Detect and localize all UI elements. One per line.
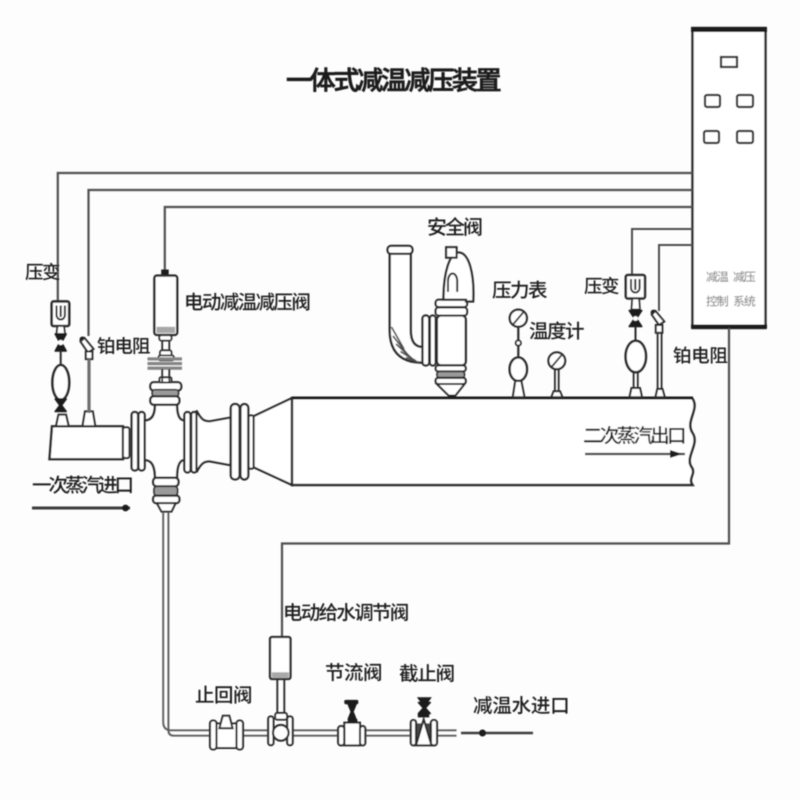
pedestal on inlet pipe for RTD bbox=[83, 411, 96, 426]
pressure gauge dial bbox=[510, 310, 527, 327]
outlet pipe body bbox=[292, 398, 695, 485]
venturi throat bbox=[197, 411, 231, 473]
throttle valve stem hourglass bbox=[348, 704, 356, 719]
cross bottom taper cap bbox=[157, 503, 176, 512]
cross top flange bar 3 bbox=[150, 396, 179, 404]
feedwater valve flange right bbox=[287, 716, 293, 745]
stop valve stem hourglass bbox=[418, 703, 430, 714]
left PT siphon loop bbox=[52, 365, 69, 400]
left PT lower hourglass bbox=[55, 399, 66, 412]
safety valve body bbox=[437, 316, 466, 366]
feedwater valve neck bbox=[275, 713, 287, 720]
safety valve spring hood bbox=[444, 253, 474, 302]
label 压变 right bbox=[584, 277, 618, 294]
feedwater valve actuator box bbox=[270, 637, 291, 679]
thermometer pedestal bbox=[551, 391, 562, 397]
left PT isolation valve (hourglass) bbox=[55, 334, 66, 351]
pedestal on inlet pipe for PT bbox=[56, 415, 69, 427]
stop valve bonnet bbox=[418, 714, 429, 718]
left PT stem bbox=[60, 351, 62, 367]
left pressure transmitter head bbox=[52, 301, 69, 326]
right PT siphon loop bbox=[626, 341, 646, 373]
right PT neck bbox=[632, 299, 640, 310]
safety valve lifting lever bbox=[446, 247, 457, 258]
right PT stem upper bbox=[635, 327, 637, 342]
safety valve bonnet flange 2 bbox=[436, 308, 468, 316]
left PT neck bbox=[57, 326, 66, 334]
cross bottom flange bar 1 bbox=[153, 478, 178, 487]
check valve flange right bbox=[237, 721, 244, 750]
control cabinet box bbox=[691, 28, 767, 328]
safety valve base stem bbox=[449, 396, 456, 400]
cabinet indicator window top bbox=[721, 57, 737, 67]
PRDS yoke band 3 grey bbox=[148, 367, 183, 370]
inlet pipe body bbox=[50, 426, 124, 459]
thermometer dial bbox=[548, 352, 565, 369]
safety valve base taper bbox=[437, 384, 465, 396]
PRDS valve neck bar bbox=[159, 335, 171, 340]
right PT isolation hourglass bbox=[629, 311, 642, 327]
feedwater valve flange left bbox=[268, 716, 273, 745]
water line double pipe bbox=[163, 512, 456, 736]
cross bottom flange bar 3 bbox=[153, 496, 179, 504]
pressure gauge stem fitting bbox=[516, 340, 521, 345]
label 安全阀 bbox=[428, 217, 481, 236]
venturi step bar bbox=[249, 415, 254, 468]
left RTD rod bbox=[87, 359, 90, 413]
label 温度计 bbox=[530, 321, 584, 339]
PRDS yoke band 2 grey bbox=[148, 362, 183, 365]
cabinet label line2 控制系统 bbox=[706, 295, 755, 306]
throttle valve bonnet bbox=[348, 719, 358, 723]
throttle valve handle bbox=[344, 700, 358, 704]
cross top flange bar 1 bbox=[150, 382, 181, 390]
cross bottom flange bar 2 grey bbox=[154, 486, 178, 495]
water inlet arrow line bbox=[461, 730, 533, 737]
feedwater valve ball body bbox=[273, 725, 289, 741]
venturi right flange bar 1 bbox=[184, 412, 190, 473]
cross top flange bar 2 grey bbox=[152, 390, 178, 397]
label 铂电阻 right bbox=[673, 346, 727, 363]
cabinet button row 1 left bbox=[705, 95, 720, 107]
label 截止阀 bbox=[400, 664, 454, 682]
PRDS stem collar 2 bbox=[159, 355, 174, 360]
wire right RTD to cabinet bbox=[659, 245, 693, 311]
wire left PT to cabinet bbox=[58, 173, 693, 301]
elbow hatch lines bbox=[392, 327, 420, 363]
check valve cap bbox=[219, 716, 232, 729]
diffuser cone bbox=[254, 398, 292, 485]
right pressure transmitter head bbox=[626, 275, 645, 299]
stop valve flange left bbox=[411, 720, 416, 745]
stop valve dark body fill bbox=[417, 724, 431, 746]
safety valve inlet flange bar 1 bbox=[423, 316, 430, 366]
label 压变 left bbox=[25, 263, 59, 280]
venturi right flange bar 2 bbox=[191, 412, 197, 473]
outlet flow arrow bbox=[585, 450, 685, 458]
right RTD flag bbox=[651, 310, 665, 333]
throttle valve flange right bbox=[360, 726, 365, 745]
elbow top cap bbox=[388, 246, 413, 254]
wire cabinet to feedwater valve actuator bbox=[282, 328, 729, 637]
inlet flange bar 2 bbox=[139, 412, 145, 471]
safety valve inlet flange bar 2 bbox=[430, 316, 436, 366]
pressure gauge stem bbox=[517, 327, 519, 358]
cabinet button row 1 right bbox=[737, 95, 753, 107]
safety valve exhaust elbow bbox=[390, 252, 423, 363]
right PT lower stem bbox=[634, 372, 638, 388]
safety valve outlet flange bar 2 grey bbox=[437, 371, 465, 377]
stop valve flange right bbox=[431, 720, 437, 745]
left RTD flag bbox=[80, 337, 94, 360]
PRDS lower stem collar bbox=[160, 377, 172, 382]
PRDS yoke band 1 grey bbox=[148, 357, 183, 360]
pressure gauge pedestal bbox=[513, 381, 525, 397]
wire left RTD to cabinet bbox=[89, 190, 693, 336]
right RTD pedestal bbox=[656, 389, 665, 397]
check valve flange left bbox=[210, 721, 217, 750]
venturi flange tall bar 2 bbox=[241, 404, 249, 480]
label 电动给水调节阀 bbox=[285, 603, 407, 621]
label 减温水进口 bbox=[474, 696, 568, 714]
PRDS lower stem bbox=[162, 369, 169, 382]
right PT pedestal bbox=[630, 388, 643, 397]
cabinet button row 2 left bbox=[704, 131, 719, 143]
cabinet label line1 减温减压 bbox=[706, 271, 755, 282]
PRDS electric actuator box bbox=[154, 276, 177, 335]
cross valve body bbox=[145, 405, 185, 478]
cabinet button row 2 right bbox=[737, 131, 753, 143]
label 电动减温减压阀 bbox=[186, 293, 309, 311]
wire right PT to cabinet bbox=[632, 229, 693, 276]
safety valve outlet flange bar 1 bbox=[436, 365, 466, 371]
PRDS stem collar bbox=[160, 350, 172, 356]
venturi flange tall bar 1 bbox=[231, 404, 240, 480]
label 二次蒸汽出口 bbox=[584, 426, 684, 444]
title 一体式减温减压装置 bbox=[287, 68, 500, 92]
label 压力表 bbox=[493, 281, 547, 299]
label 一次蒸汽进口 bbox=[33, 476, 132, 494]
right RTD rod bbox=[658, 333, 662, 389]
wire PRDS valve actuator to cabinet bbox=[165, 207, 693, 272]
check valve body bbox=[217, 724, 237, 749]
inlet flange bar 1 bbox=[132, 412, 138, 471]
inlet flow arrow line bbox=[32, 505, 130, 512]
stop valve wedge bbox=[416, 720, 432, 746]
feedwater valve stem bbox=[277, 679, 284, 716]
outlet pipe top edge thick bbox=[292, 397, 693, 400]
label 节流阀 bbox=[326, 663, 381, 681]
inlet pipe end band bbox=[123, 427, 129, 458]
throttle valve body bbox=[344, 723, 360, 746]
label 铂电阻 left bbox=[97, 337, 149, 354]
label 止回阀 bbox=[196, 686, 251, 704]
safety valve bonnet flange 1 bbox=[436, 300, 468, 307]
pressure gauge siphon loop bbox=[510, 357, 527, 381]
safety valve inner arch bbox=[448, 274, 457, 292]
PRDS valve stem bbox=[162, 341, 169, 351]
thermometer stem bbox=[555, 369, 559, 392]
safety valve outlet flange bar 3 bbox=[436, 378, 466, 384]
PRDS valve connection dot bbox=[161, 270, 169, 277]
stop valve handle bbox=[417, 697, 432, 702]
throttle valve flange left bbox=[338, 726, 344, 745]
